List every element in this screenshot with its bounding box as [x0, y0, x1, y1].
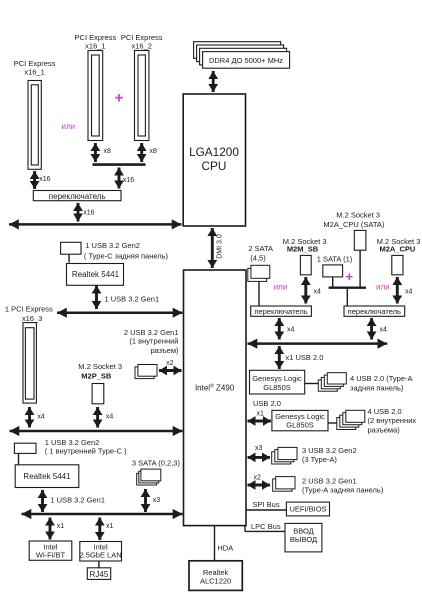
svg-text:x4: x4	[380, 327, 388, 334]
svg-text:GL850S: GL850S	[286, 420, 314, 429]
svg-text:4 USB 2.0 (Type-A: 4 USB 2.0 (Type-A	[350, 374, 413, 383]
svg-text:x16_1: x16_1	[85, 42, 105, 51]
svg-text:x2: x2	[166, 360, 174, 367]
svg-text:x4: x4	[37, 414, 45, 421]
svg-text:USB 2.0: USB 2.0	[253, 399, 281, 408]
svg-text:x16: x16	[83, 210, 94, 217]
svg-text:x1 USB 2.0: x1 USB 2.0	[286, 353, 324, 362]
svg-text:задняя панель): задняя панель)	[350, 384, 404, 393]
svg-text:переключатель: переключатель	[254, 307, 307, 316]
svg-text:(1 внутренний: (1 внутренний	[129, 337, 178, 346]
svg-text:Genesys Logic: Genesys Logic	[252, 374, 302, 383]
svg-text:1 USB 3.2 Gen1: 1 USB 3.2 Gen1	[50, 496, 105, 505]
svg-text:3 SATA (0,2,3): 3 SATA (0,2,3)	[132, 459, 181, 468]
svg-text:или: или	[61, 122, 75, 131]
svg-text:SPI Bus: SPI Bus	[253, 500, 280, 509]
svg-text:(3 Type-A): (3 Type-A)	[302, 455, 337, 464]
svg-text:x4: x4	[314, 289, 322, 296]
svg-text:(4,5): (4,5)	[250, 254, 266, 263]
svg-text:x8: x8	[150, 148, 158, 155]
svg-text:переключатель: переключатель	[348, 307, 401, 316]
svg-text:x8: x8	[104, 148, 112, 155]
svg-text:HDA: HDA	[217, 543, 233, 552]
svg-text:x1: x1	[106, 523, 114, 530]
svg-text:M2P_SB: M2P_SB	[81, 372, 112, 381]
svg-text:1 SATA (1): 1 SATA (1)	[317, 255, 353, 264]
svg-text:разъем): разъем)	[150, 346, 179, 355]
svg-text:( Туре-С задняя панель): ( Туре-С задняя панель)	[84, 251, 169, 260]
svg-text:x16_3: x16_3	[22, 314, 42, 323]
svg-text:2 USB 3.2 Gen1: 2 USB 3.2 Gen1	[302, 477, 357, 486]
svg-text:Realtek 5441: Realtek 5441	[23, 472, 71, 481]
svg-text:LPC Bus: LPC Bus	[251, 522, 281, 531]
svg-text:x4: x4	[106, 414, 114, 421]
svg-text:или: или	[376, 283, 390, 292]
svg-text:4 USB 2.0: 4 USB 2.0	[368, 407, 402, 416]
svg-text:CPU: CPU	[202, 159, 227, 173]
svg-text:x3: x3	[153, 497, 161, 504]
svg-text:Realtek 5441: Realtek 5441	[72, 270, 120, 279]
svg-text:x4: x4	[405, 289, 413, 296]
svg-text:+: +	[115, 90, 124, 107]
svg-text:UEFI/BIOS: UEFI/BIOS	[289, 505, 326, 514]
svg-text:Intel® Z490: Intel® Z490	[195, 383, 235, 393]
svg-text:PCI Express: PCI Express	[121, 33, 163, 42]
svg-text:PCI Express: PCI Express	[14, 59, 56, 68]
svg-text:( 1 внутренний Туре-С ): ( 1 внутренний Туре-С )	[45, 447, 127, 456]
svg-text:(2 внутренних: (2 внутренних	[368, 416, 417, 425]
svg-text:M.2 Socket 3: M.2 Socket 3	[78, 362, 122, 371]
svg-text:x16_2: x16_2	[131, 42, 151, 51]
svg-text:GL850S: GL850S	[263, 383, 291, 392]
svg-text:LGA1200: LGA1200	[189, 145, 239, 159]
svg-text:M2M_SB: M2M_SB	[287, 245, 319, 254]
svg-text:2 USB 3.2 Gen1: 2 USB 3.2 Gen1	[124, 328, 179, 337]
svg-text:M.2 Socket 3: M.2 Socket 3	[336, 211, 380, 220]
svg-text:x1: x1	[57, 523, 64, 530]
svg-text:ВЫВОД: ВЫВОД	[290, 535, 317, 544]
svg-text:x16: x16	[39, 176, 50, 183]
svg-text:или: или	[274, 283, 288, 292]
svg-text:x1: x1	[257, 410, 265, 417]
svg-text:1 USB 3.2 Gen2: 1 USB 3.2 Gen2	[85, 241, 140, 250]
svg-text:x16_1: x16_1	[24, 68, 44, 77]
svg-text:1 PCI Express: 1 PCI Express	[5, 305, 53, 314]
svg-text:+: +	[346, 269, 354, 284]
svg-text:(Type-A задняя панель): (Type-A задняя панель)	[302, 485, 384, 494]
svg-text:DDR4 ДО 5000+ MHz: DDR4 ДО 5000+ MHz	[209, 56, 283, 65]
svg-text:переключатель: переключатель	[49, 192, 106, 201]
svg-text:x4: x4	[287, 327, 295, 334]
svg-text:разъема): разъема)	[368, 426, 401, 435]
svg-text:x2: x2	[254, 475, 262, 482]
svg-text:2 SATA: 2 SATA	[248, 244, 273, 253]
svg-text:DMI 3.0: DMI 3.0	[217, 234, 224, 259]
svg-text:2.5GbE LAN: 2.5GbE LAN	[80, 551, 122, 560]
svg-text:1 USB 3.2 Gen1: 1 USB 3.2 Gen1	[105, 295, 160, 304]
svg-text:Wi-Fi/BT: Wi-Fi/BT	[36, 550, 66, 559]
svg-text:ALC1220: ALC1220	[200, 576, 231, 585]
svg-text:x3: x3	[255, 445, 263, 452]
svg-text:M2A_CPU: M2A_CPU	[379, 245, 415, 254]
svg-text:3 USB 3.2 Gen2: 3 USB 3.2 Gen2	[302, 446, 357, 455]
svg-text:PCI Express: PCI Express	[75, 33, 117, 42]
svg-text:x16: x16	[123, 177, 134, 184]
svg-text:RJ45: RJ45	[90, 570, 109, 579]
svg-text:M2A_CPU (SATA): M2A_CPU (SATA)	[323, 220, 384, 229]
